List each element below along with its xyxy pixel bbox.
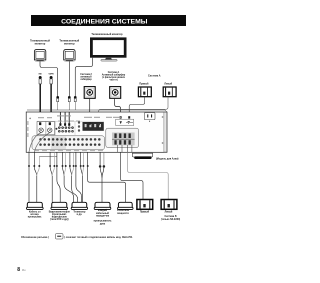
svg-text:дека: дека [100,223,106,225]
device 2 plug housing [51,202,68,209]
subwoofer 2 icon [110,87,121,99]
svg-text:(типа DVD и др)): (типа DVD и др)) [50,219,69,221]
cable pair merge to device 1 [34,167,37,202]
svg-text:кабельный: кабельный [96,212,109,215]
device 3 plug housing [71,202,87,209]
svg-text:и др.: и др. [77,214,83,216]
svg-text:Каждый: Каждый [98,209,108,212]
footnote icon [55,234,63,239]
screw right lower [162,142,164,144]
svg-text:8: 8 [17,267,20,273]
wire stubs below receiver [29,152,88,202]
AC outlet [144,113,155,122]
wire subwoofer 2 into receiver [115,99,121,119]
svg-text:Левый: Левый [165,211,173,214]
down plug from TV1 wire [56,96,59,110]
svg-text:СОЕДИНЕНИЯ СИСТЕМЫ: СОЕДИНЕНИЯ СИСТЕМЫ [61,18,148,25]
wires into rear jacks inside receiver [60,112,69,123]
svg-text:Правый: Правый [139,82,149,85]
wire receiver to speaker B left [128,152,169,199]
label subwoofer system 2 [80,74,92,81]
wire MD plug into receiver [39,84,41,123]
terminal wires down inside receiver [118,145,132,152]
cable pair merge to device 2 [50,167,52,202]
wire TAPE plug into receiver [50,84,52,123]
speaker B right icon [137,200,153,210]
FM antenna gray wire [98,123,100,126]
speaker B left icon [161,200,177,210]
cable pair merge to device 3 left [63,167,74,202]
antenna binding post 1 [39,128,43,132]
down plug from TV3 wire [74,96,77,110]
svg-text:) означает готовый к подключен: ) означает готовый к подключению кабель … [64,236,133,239]
receiver panel label marks [27,115,133,151]
antenna terminal box [37,122,55,135]
screw right upper [162,116,164,118]
wire receiver to speaker B right [121,152,144,199]
svg-text:проигрыватель: проигрыватель [94,221,112,223]
svg-text:передатчик: передатчик [96,216,110,218]
speaker terminal dark strip [83,122,104,131]
down plug from TV2 wire [68,96,71,110]
label subwoofer system 1 [102,72,126,82]
speaker A right icon [138,87,151,97]
curved wire inside receiver 2 [35,133,50,152]
svg-text:Система В: Система В [165,216,177,218]
label TV monitor 2 [59,40,79,46]
cable single bend to device 2 [57,167,60,202]
page number [17,267,26,273]
cable tips row [28,165,89,167]
AV jack panel (rounded, lower left) [32,136,105,150]
TV monitor 1 (CRT) [34,50,45,62]
cable pair merge to device 3 right2 [81,167,83,202]
jack cluster upper left [55,121,80,132]
device 1 plug housing [27,202,44,209]
wire TV1 to down-plug [40,61,58,98]
up plug TAPE [50,76,53,84]
speaker terminal panel (center) [106,128,139,147]
AV jack rows [39,138,100,146]
svg-text:монитор: монитор [35,42,46,45]
cable single to device 3 right [76,167,82,202]
label device 1 [28,210,43,218]
svg-text:TAPE: TAPE [48,73,54,76]
wire speaker A left to receiver [99,97,168,123]
svg-text:Система А: Система А [148,74,161,77]
svg-text:частот): частот) [109,80,117,82]
label device 4 [94,209,112,225]
cable pair to device 4 [99,152,105,202]
curved wire inside receiver 1 [29,133,41,152]
wire TV2 to down-plug [68,61,70,96]
svg-text:Обозначение разъема (: Обозначение разъема ( [21,236,49,239]
speaker A left icon [163,87,176,97]
TV monitor 2 (CRT) [64,50,75,62]
wire speaker A right to receiver [129,97,145,119]
footnote [21,236,133,239]
wire bus below receiver [39,156,57,158]
svg-text:сабвуфер: сабвуфер [80,78,92,81]
svg-text:Правый: Правый [140,211,150,214]
panel structure lines [37,121,104,135]
title banner [31,15,186,26]
svg-text:мощности: мощности [117,213,129,215]
subwoofer 1 icon [84,87,95,99]
svg-text:(только NX-E300): (только NX-E300) [161,219,181,221]
svg-text:Телевизионный монитор: Телевизионный монитор [91,33,123,36]
wire TV3 to down-plug [75,58,92,99]
receiver back panel body [26,110,167,152]
svg-text:MD: MD [39,74,43,76]
svg-text:проигрыват.: проигрыват. [28,216,43,218]
svg-text:Усилитель: Усилитель [117,210,130,212]
label device 3 [73,211,86,216]
antenna binding post 2 [48,128,52,132]
up plug MD [39,76,42,84]
label device 5 [117,210,130,215]
label TV monitor 1 [30,40,50,46]
svg-text:Ru: Ru [22,268,26,272]
speaker input bracket panel [116,119,134,125]
svg-text:(Модель для Азии): (Модель для Азии) [156,158,179,161]
cable pair merge to device 3 mid [70,167,78,202]
svg-text:Левый: Левый [164,82,172,85]
TV monitor 3 (flat panel) [90,37,127,61]
svg-text:монитор: монитор [64,42,75,45]
cable long run to device 5 [88,167,126,202]
label device 2 [49,210,71,221]
wire subwoofer 1 into receiver [89,99,91,122]
screw top-left [29,117,31,119]
subwoofer wire plugs inside receiver [89,122,91,125]
device 5 plug housing [118,202,133,209]
power cord plug below receiver [132,153,152,159]
device 4 plug housing [94,202,111,209]
label system B [161,216,181,221]
